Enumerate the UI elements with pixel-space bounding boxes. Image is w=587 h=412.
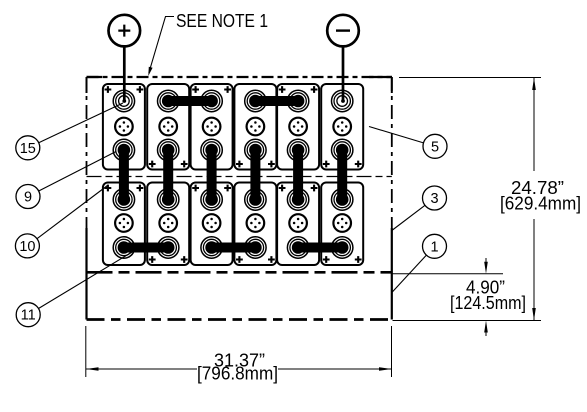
- svg-text:SEE NOTE 1: SEE NOTE 1: [176, 11, 268, 31]
- battery B6 bottom terminal post: [332, 139, 353, 160]
- battery B3 (row 1, col 3): [191, 84, 233, 170]
- battery B6 polarity + marks: [323, 161, 330, 168]
- pallet bottom hidden line: [87, 318, 392, 321]
- battery B4 polarity + marks: [236, 161, 243, 168]
- battery B6 (row 1, col 6): [321, 84, 363, 170]
- svg-text:1: 1: [430, 239, 438, 255]
- svg-text:15: 15: [20, 141, 36, 157]
- balloon callout 1 with leader: [392, 234, 446, 292]
- centerline between battery rows: [87, 176, 392, 178]
- svg-text:9: 9: [24, 190, 32, 206]
- battery tray hidden outline, right edge: [391, 77, 393, 228]
- battery tray hidden outline, left edge: [86, 77, 88, 228]
- svg-text:10: 10: [19, 239, 35, 255]
- intercell connector bar, row1 top B2-B3: [168, 96, 211, 106]
- battery B9 vent cap: [203, 214, 221, 232]
- pallet left side (solid): [85, 228, 87, 320]
- battery B9 top terminal post: [201, 189, 222, 210]
- pallet right side (solid): [391, 228, 393, 320]
- battery B5 top terminal post: [287, 90, 308, 111]
- battery B12 polarity + marks: [323, 256, 330, 263]
- battery B10 (row 2, col 4): [234, 183, 276, 266]
- battery B2 vent cap: [159, 118, 177, 136]
- battery B10 bottom terminal post: [245, 237, 266, 258]
- battery B8 polarity + marks: [149, 256, 156, 263]
- intercell connector bar, vertical col 2 (B2-B8): [163, 149, 173, 202]
- intercell connector bar, vertical col 1 (B1-B7): [119, 149, 129, 202]
- battery B5 bottom terminal post: [287, 139, 308, 160]
- battery B12 top terminal post: [332, 189, 353, 210]
- intercell connector bar, vertical col 5 (B5-B11): [293, 149, 303, 202]
- intercell connector bar, row2 bottom B7-B8: [124, 243, 168, 253]
- battery B7 top terminal post: [113, 189, 134, 210]
- svg-text:[796.8mm]: [796.8mm]: [197, 364, 278, 384]
- negative lead wire: [342, 46, 345, 101]
- battery B4 top terminal post: [245, 90, 266, 111]
- battery B11 polarity + marks: [279, 185, 286, 192]
- battery B6 vent cap: [333, 118, 351, 136]
- battery B1 bottom terminal post: [113, 139, 134, 160]
- battery B11 vent cap: [289, 214, 307, 232]
- battery B12 vent cap: [333, 214, 351, 232]
- intercell connector bar, row1 top B4-B5: [255, 96, 298, 106]
- negative battery-bank terminal symbol: [327, 15, 359, 47]
- battery B4 (row 1, col 4): [234, 84, 276, 170]
- svg-text:3: 3: [430, 191, 438, 207]
- dimension 31.37in overall width: [86, 326, 392, 384]
- battery B10 vent cap: [247, 214, 265, 232]
- battery B4 bottom terminal post: [245, 139, 266, 160]
- balloon callout 9 with leader: [16, 152, 116, 209]
- battery B1 polarity + marks: [105, 86, 112, 93]
- battery B12 bottom terminal post: [332, 237, 353, 258]
- battery B3 polarity + marks: [192, 86, 199, 93]
- battery B7 vent cap: [115, 214, 133, 232]
- battery B9 bottom terminal post: [201, 237, 222, 258]
- battery B8 vent cap: [159, 214, 177, 232]
- battery B11 top terminal post: [287, 189, 308, 210]
- battery B2 bottom terminal post: [158, 139, 179, 160]
- battery B5 (row 1, col 5): [277, 84, 319, 170]
- battery B5 polarity + marks: [279, 86, 286, 93]
- battery B7 bottom terminal post: [113, 237, 134, 258]
- battery B10 polarity + marks: [236, 256, 243, 263]
- balloon callout 3 with leader: [392, 186, 447, 231]
- battery B1 (row 1, col 1): [103, 84, 145, 170]
- dimension 24.78in overall height: [393, 78, 582, 321]
- battery B8 bottom terminal post: [158, 237, 179, 258]
- note label: SEE NOTE 1: [148, 11, 268, 76]
- battery B11 bottom terminal post: [287, 237, 308, 258]
- intercell connector bar, row2 bottom B11-B12: [298, 243, 342, 253]
- balloon callout 15 with leader: [16, 103, 123, 160]
- balloon callout 10 with leader: [15, 186, 107, 258]
- intercell connector bar, vertical col 6 (B6-B12): [337, 149, 347, 202]
- battery B1 top terminal post: [113, 90, 134, 111]
- battery B7 (row 2, col 1): [103, 183, 145, 266]
- battery B3 top terminal post: [201, 90, 222, 111]
- intercell connector bar, vertical col 3 (B3-B9): [207, 149, 217, 202]
- battery B8 (row 2, col 2): [147, 183, 189, 266]
- battery B4 vent cap: [247, 118, 265, 136]
- intercell connector bar, row2 bottom B9-B10: [212, 243, 256, 253]
- positive lead wire: [123, 46, 126, 101]
- battery B7 polarity + marks: [105, 185, 112, 192]
- battery B2 (row 1, col 2): [147, 84, 189, 170]
- dimension 4.90in pallet height: [393, 258, 527, 336]
- intercell connector bar, vertical col 4 (B4-B10): [250, 149, 260, 202]
- battery B6 top terminal post: [332, 90, 353, 111]
- battery B3 bottom terminal post: [201, 139, 222, 160]
- battery tray hidden outline (dash-dot), top edge: [87, 76, 393, 78]
- battery B3 vent cap: [203, 118, 221, 136]
- battery B8 top terminal post: [158, 189, 179, 210]
- svg-text:[629.4mm]: [629.4mm]: [500, 194, 581, 214]
- svg-text:11: 11: [21, 308, 36, 324]
- balloon callout 11 with leader: [16, 250, 135, 327]
- battery B2 polarity + marks: [149, 161, 156, 168]
- balloon callout 5 with leader: [369, 127, 447, 159]
- battery B10 top terminal post: [245, 189, 266, 210]
- battery B1 vent cap: [115, 118, 133, 136]
- svg-text:[124.5mm]: [124.5mm]: [450, 293, 526, 313]
- battery B12 (row 2, col 6): [321, 183, 363, 266]
- svg-text:5: 5: [431, 139, 439, 155]
- battery B11 (row 2, col 5): [277, 183, 319, 266]
- battery B9 polarity + marks: [192, 185, 199, 192]
- positive battery-bank terminal symbol: [109, 15, 141, 47]
- battery B9 (row 2, col 3): [191, 183, 233, 266]
- battery B5 vent cap: [289, 118, 307, 136]
- pallet deck hidden line: [87, 271, 392, 274]
- battery B2 top terminal post: [158, 90, 179, 111]
